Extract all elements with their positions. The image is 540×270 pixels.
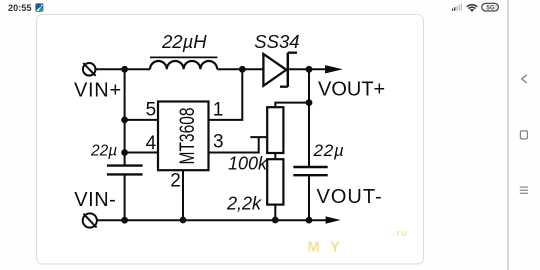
wire R1-R2 middle (274, 153, 276, 159)
svg-text:VOUT-: VOUT- (317, 186, 383, 208)
svg-text:VOUT+: VOUT+ (318, 79, 385, 101)
wire pin3 feedback jog (209, 137, 259, 152)
wire R2 bottom (274, 205, 276, 220)
IC U1 MT3608 (158, 102, 209, 171)
node feedback top junction (306, 99, 313, 106)
wire C1 bottom (124, 174, 126, 220)
svg-text:MT3608: MT3608 (176, 108, 199, 165)
capacitor C1 input (107, 166, 143, 175)
wire jog horizontal (250, 136, 267, 138)
terminal VIN+ (83, 63, 96, 76)
node pin4 junction (121, 149, 128, 156)
status bar battery (482, 3, 499, 11)
svg-text:VIN+: VIN+ (74, 79, 122, 101)
svg-text:SS34: SS34 (254, 31, 299, 52)
nav menu lines (520, 187, 528, 193)
svg-text:5: 5 (146, 99, 157, 120)
wire output vertical lower (308, 175, 310, 220)
status bar signal bars (452, 4, 462, 11)
svg-text:5G: 5G (486, 5, 494, 12)
diode D1 SS34 (263, 53, 297, 87)
resistor R1 100k (267, 107, 283, 153)
wire pin5 (125, 119, 158, 121)
schematic card frame (37, 15, 424, 265)
wire pin1 to SW node (209, 69, 243, 120)
resistor R2 2,2k (267, 159, 283, 204)
status bar wifi icon (467, 5, 478, 12)
wire bottom rail (97, 219, 326, 221)
inductor core bar (150, 56, 217, 58)
wire output vertical upper (308, 69, 310, 167)
node VOUT- junction (306, 217, 313, 224)
svg-text:22µ: 22µ (90, 142, 117, 159)
svg-text:22µH: 22µH (161, 31, 207, 52)
wire left vertical (124, 69, 126, 164)
node SW junction (239, 66, 246, 73)
right panel divider (507, 0, 509, 270)
svg-text:100k: 100k (228, 153, 268, 173)
svg-text:.ru: .ru (393, 228, 408, 238)
svg-text:MY: MY (308, 240, 351, 256)
svg-text:20:55: 20:55 (8, 3, 32, 13)
svg-text:22µ: 22µ (313, 141, 345, 160)
nav back chevron (522, 75, 527, 83)
terminal VIN- (83, 213, 97, 227)
status bar clock (8, 3, 32, 13)
wire top rail left (96, 68, 150, 70)
wire R1 top (275, 103, 309, 108)
arrow VOUT- (326, 216, 341, 223)
wire top rail mid (217, 68, 263, 70)
inductor L1 (150, 61, 217, 69)
node VIN- junction (121, 217, 128, 224)
wire top rail right (289, 68, 326, 70)
node GND pin2 junction (180, 217, 187, 224)
svg-text:VIN-: VIN- (74, 189, 116, 211)
node VOUT+ junction (306, 66, 313, 73)
svg-text:4: 4 (146, 133, 157, 154)
nav home square (520, 131, 527, 139)
wire pin2 (182, 170, 184, 220)
svg-text:3: 3 (213, 132, 224, 153)
node pin5 junction (121, 117, 128, 124)
svg-text:2,2k: 2,2k (226, 194, 262, 214)
node input junction (121, 66, 128, 73)
node R2 gnd junction (272, 217, 279, 224)
svg-text:1: 1 (213, 99, 224, 120)
wire pin4 (125, 152, 158, 154)
svg-text:2: 2 (170, 171, 181, 192)
capacitor C2 output (293, 167, 327, 175)
status bar app icon (35, 3, 43, 11)
arrow VOUT+ (325, 65, 343, 73)
